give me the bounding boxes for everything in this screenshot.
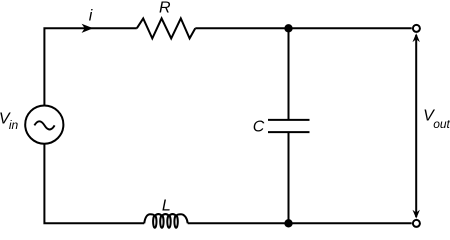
svg-text:i: i [89, 8, 93, 25]
svg-text:out: out [433, 117, 450, 131]
svg-text:in: in [9, 118, 19, 132]
svg-text:C: C [253, 119, 265, 136]
svg-text:L: L [162, 197, 171, 214]
svg-text:R: R [159, 0, 171, 16]
